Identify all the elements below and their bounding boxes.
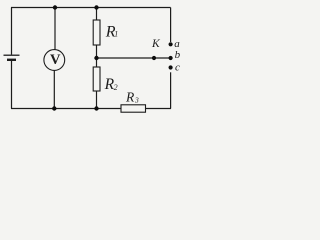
- wire top horizontal: [11, 7, 171, 9]
- svg-text:b: b: [175, 49, 181, 61]
- svg-text:c: c: [175, 61, 180, 73]
- switch contact a: [169, 42, 173, 46]
- svg-text:2: 2: [114, 83, 118, 92]
- battery B1: [4, 55, 20, 60]
- wire R2 bottom: [96, 91, 98, 109]
- svg-text:3: 3: [134, 96, 139, 105]
- wire bottom horizontal left (to R3): [11, 108, 121, 110]
- wire left vertical lower (battery to bottom): [11, 61, 13, 109]
- switch contact c: [169, 65, 173, 69]
- junction node: R1 top: [94, 5, 98, 9]
- junction node: voltmeter bottom: [52, 106, 56, 110]
- node A: R1/R2 junction: [94, 56, 98, 60]
- wire left vertical upper (battery to top): [11, 8, 13, 55]
- svg-text:K: K: [151, 38, 161, 50]
- wire R1 branch top: [96, 8, 98, 21]
- wire bottom horizontal right (R3 to right corner): [146, 108, 172, 110]
- wire right vertical upper (top wire to contact a): [170, 8, 172, 43]
- svg-text:R: R: [125, 90, 135, 105]
- voltmeter V: [44, 50, 65, 71]
- resistor R2: [93, 67, 100, 91]
- resistor R3: [121, 105, 146, 112]
- resistor R1: [93, 20, 100, 45]
- junction on switch wire: [152, 56, 156, 60]
- wire voltmeter branch top: [54, 8, 56, 50]
- wire R1 bottom to node: [96, 45, 98, 67]
- wire right vertical lower (contact c to bottom): [170, 72, 172, 108]
- svg-text:1: 1: [114, 30, 118, 39]
- junction node: voltmeter top: [53, 5, 57, 9]
- junction node: R2 bottom: [94, 106, 98, 110]
- wire node to switch contact b: [97, 57, 171, 59]
- svg-text:V: V: [50, 52, 61, 68]
- wire voltmeter branch bottom: [53, 70, 55, 108]
- switch contact b: [169, 56, 173, 60]
